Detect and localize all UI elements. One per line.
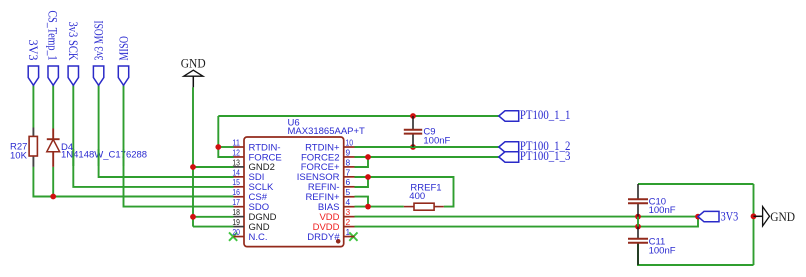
svg-text:GND: GND [181, 55, 206, 70]
svg-text:18: 18 [232, 207, 240, 217]
pin 14 SDI [232, 167, 264, 183]
pin 1 DRDY# [307, 227, 354, 243]
svg-text:3V3: 3V3 [26, 40, 41, 61]
wire VDD-DVDD link at C10/C11 [637, 217, 639, 227]
resistor R27 [10, 128, 37, 167]
svg-text:2: 2 [346, 217, 351, 227]
wire riser to RTDIN- pin 11 [218, 146, 233, 148]
wire GND loop bottom rail [638, 243, 754, 265]
net flag 3V3 (top col 1) [26, 40, 41, 86]
wire GND to GND pin 19 [193, 226, 234, 228]
junction GND symbol attach [751, 213, 757, 219]
junction pin9 tie [365, 154, 371, 160]
wire GND to DGND pin 18 [193, 216, 234, 218]
wire CS net: R27 bottom, D4 bottom to CS# pin 16 [33, 167, 233, 197]
wire over D4 label (col 4) [98, 149, 100, 166]
svg-text:19: 19 [232, 217, 240, 227]
svg-text:MISO: MISO [116, 36, 131, 61]
svg-text:3v3 SCK: 3v3 SCK [66, 22, 81, 61]
wire FORCE2 pin 9 to PT100_1_3 [355, 156, 499, 158]
svg-text:N.C.: N.C. [249, 232, 268, 243]
pin 17 SDO [232, 197, 269, 213]
svg-text:3: 3 [346, 207, 351, 217]
svg-text:20: 20 [232, 227, 240, 237]
net flag MISO (top col 5) [116, 36, 131, 85]
junction pin7 tie [365, 174, 371, 180]
wire VDD pin 3 to 3V3 flag [355, 216, 699, 218]
wire GND loop right vertical [753, 184, 755, 265]
junction 3V3 flag [695, 214, 701, 220]
ground symbol (right) [754, 207, 796, 226]
wire top rail to PT100_1_1 [218, 115, 499, 117]
resistor RREF1 [404, 183, 444, 211]
svg-text:PT100_1_3: PT100_1_3 [520, 148, 571, 163]
pin 10 RTDIN+ [305, 137, 354, 153]
wire ISENSOR/REFIN- tie [355, 177, 369, 187]
svg-text:10: 10 [346, 137, 354, 147]
svg-text:100nF: 100nF [423, 135, 450, 146]
wire BIAS/REFIN+ tie [355, 197, 369, 207]
svg-text:14: 14 [232, 167, 240, 177]
pin 4 BIAS [318, 197, 355, 213]
net flag CS_Temp_1 (top col 2) [46, 11, 61, 86]
svg-text:13: 13 [232, 157, 240, 167]
svg-text:3v3 MOSI: 3v3 MOSI [91, 20, 106, 60]
wire BIAS pin 4 to RREF left side [355, 206, 404, 208]
net flag PT100_1_3 [499, 148, 571, 163]
pin 3 VDD [319, 207, 354, 223]
wire column 3V3 down to R27 [32, 85, 34, 127]
svg-text:7: 7 [346, 167, 351, 177]
svg-text:CS_Temp_1: CS_Temp_1 [46, 11, 61, 61]
svg-text:PT100_1_1: PT100_1_1 [520, 107, 571, 122]
wire 3v3 MOSI column to SDI pin 14 [99, 85, 234, 177]
svg-text:15: 15 [232, 177, 240, 187]
svg-text:100nF: 100nF [649, 245, 676, 256]
svg-text:11: 11 [232, 137, 240, 147]
wire FORCE2/FORCE+ tie [355, 157, 369, 167]
wire over D4 label (col 3) [72, 149, 74, 166]
svg-text:MAX31865AAP+T: MAX31865AAP+T [288, 126, 366, 137]
svg-text:400: 400 [409, 191, 425, 202]
pin 8 FORCE+ [301, 157, 355, 173]
capacitor C9 [404, 116, 451, 147]
pin 18 DGND [232, 207, 276, 223]
capacitor C11 [628, 227, 676, 265]
ground symbol (top) [181, 55, 206, 87]
wire 3v3 SCK column to SCLK pin 15 [73, 85, 233, 187]
diode D4 [47, 129, 147, 167]
junction GND/GND2 [190, 164, 196, 170]
junction D4/CS [50, 194, 56, 200]
wire D4 bottom to CS net [52, 167, 54, 197]
svg-text:100nF: 100nF [649, 205, 676, 216]
svg-text:10K: 10K [10, 150, 28, 161]
svg-text:3V3: 3V3 [721, 208, 739, 223]
pin 9 FORCE2 [301, 147, 355, 163]
junction C9 top on rail [410, 113, 416, 119]
IC U6 MAX31865AAP+T [244, 117, 365, 246]
pin 16 CS# [232, 187, 267, 203]
pin 2 DVDD [313, 217, 355, 233]
svg-text:9: 9 [346, 147, 351, 157]
svg-text:8: 8 [346, 157, 351, 167]
wire DVDD pin 2 riser to 3V3 [355, 217, 699, 227]
pin 15 SCLK [232, 177, 274, 193]
junction riser pin 11 [215, 144, 221, 150]
junction pin4 tie [365, 204, 371, 210]
svg-text:GND: GND [770, 209, 795, 224]
svg-text:12: 12 [232, 147, 240, 157]
junction C11 top on DVDD [635, 224, 641, 230]
wire ISENSOR pin 7 to RREF right side [355, 177, 454, 207]
wire over D4 label (col 5) [123, 149, 125, 166]
ground wire vertical from GND symbol [192, 87, 194, 226]
net flag 3v3 SCK (top col 3) [66, 22, 81, 86]
wire GND loop top rail [638, 183, 754, 185]
no-connect X pin 20 [229, 232, 237, 240]
net flag 3v3 MOSI (top col 4) [91, 20, 106, 85]
wire column CS_Temp_1 down to D4 [52, 85, 54, 128]
svg-text:16: 16 [232, 187, 240, 197]
net flag PT100_1_1 [499, 107, 571, 122]
net flag 3V3 (right) [698, 208, 738, 223]
pin 20 N.C. [232, 227, 267, 243]
net flag PT100_1_2 [499, 138, 571, 153]
junction C9 bottom on RTDIN+ wire [410, 144, 416, 150]
svg-text:5: 5 [346, 187, 351, 197]
pin 19 GND [232, 217, 269, 233]
wire RTDIN+ pin 10 to PT100_1_2 [355, 146, 499, 148]
junction C10 bottom on VDD [635, 214, 641, 220]
svg-text:4: 4 [346, 197, 351, 207]
active-low dot DRDY [336, 239, 341, 244]
svg-text:17: 17 [232, 197, 240, 207]
junction GND/DGND [190, 214, 196, 220]
svg-text:1: 1 [346, 227, 351, 237]
pin 6 REFIN- [308, 177, 355, 193]
capacitor C10 [628, 184, 676, 217]
svg-text:DRDY#: DRDY# [307, 232, 340, 243]
no-connect X pin 1 [349, 232, 357, 240]
pin 11 RTDIN- [232, 137, 280, 153]
svg-text:6: 6 [346, 177, 351, 187]
wire RTDIN-/FORCE tie riser to top rail [218, 116, 233, 157]
pin 5 REFIN+ [305, 187, 354, 203]
pin 13 GND2 [232, 157, 275, 173]
wire MISO column to SDO pin 17 [124, 85, 234, 206]
pin 7 ISENSOR [297, 167, 355, 183]
pin 12 FORCE [232, 147, 281, 163]
wire GND to GND2 pin 13 [193, 166, 234, 168]
